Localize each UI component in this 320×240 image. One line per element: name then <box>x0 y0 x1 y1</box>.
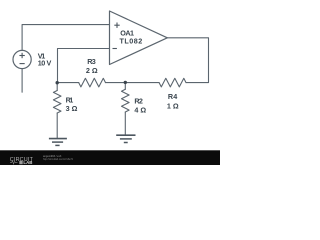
svg-text:1 Ω: 1 Ω <box>167 102 179 111</box>
svg-text:R3: R3 <box>87 57 96 66</box>
svg-text:http://circuitlab.com/c/rv5e72: http://circuitlab.com/c/rv5e72 <box>43 157 73 161</box>
svg-text:10 V: 10 V <box>38 59 52 68</box>
svg-text:LAB: LAB <box>23 160 32 165</box>
svg-text:2 Ω: 2 Ω <box>86 66 98 75</box>
svg-text:R2: R2 <box>134 97 143 106</box>
svg-text:3 Ω: 3 Ω <box>66 104 78 113</box>
svg-text:4 Ω: 4 Ω <box>134 106 146 115</box>
svg-text:R4: R4 <box>168 92 177 101</box>
svg-text:TL082: TL082 <box>120 36 143 45</box>
svg-text:R1: R1 <box>66 95 74 104</box>
